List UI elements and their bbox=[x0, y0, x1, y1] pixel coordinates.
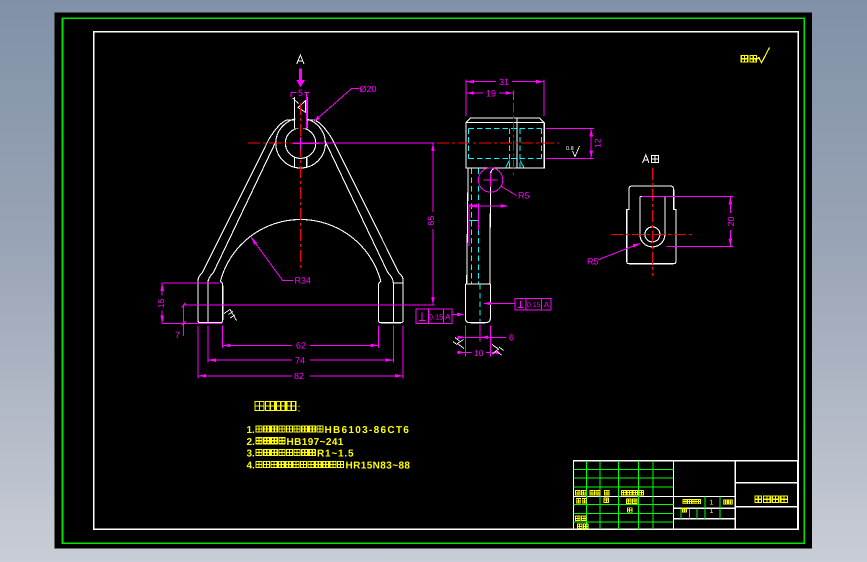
left foot pad bbox=[198, 279, 223, 323]
dimension 5 (slot width) bbox=[291, 92, 297, 97]
A view R5 leader bbox=[598, 244, 639, 260]
dimension 10 bbox=[457, 352, 490, 354]
svg-text:R1~1.5: R1~1.5 bbox=[317, 449, 354, 460]
svg-text:6: 6 bbox=[509, 333, 514, 343]
right foot pad bbox=[379, 279, 404, 323]
foot surface finish mark bbox=[224, 310, 237, 321]
A view outline bbox=[627, 186, 676, 264]
side view leg back edge bbox=[489, 174, 492, 284]
title block stage mark labels bbox=[683, 500, 687, 504]
green outer border frame bbox=[63, 18, 805, 543]
center cross ticks bbox=[293, 137, 319, 151]
white inner border frame bbox=[94, 32, 799, 530]
svg-text:A: A bbox=[544, 300, 549, 309]
A view horizontal centerline bbox=[611, 233, 695, 235]
title block green grid horizontals bbox=[573, 469, 673, 522]
A view label bbox=[643, 155, 649, 163]
slot cutout through boss bbox=[295, 112, 306, 121]
title block main white dividers bbox=[573, 461, 797, 530]
A view slot bbox=[640, 196, 665, 247]
side view boss outline bbox=[466, 118, 544, 168]
title block middle small green cells bbox=[681, 496, 720, 518]
svg-text:0.15: 0.15 bbox=[527, 302, 541, 309]
svg-text:65: 65 bbox=[426, 216, 436, 226]
svg-text:1.: 1. bbox=[247, 425, 256, 436]
side view foot outline bbox=[465, 284, 490, 323]
boss top slot side walls bbox=[295, 97, 307, 168]
roughness 0.8 symbol bbox=[573, 146, 580, 157]
dimension 82 bbox=[198, 326, 403, 379]
dimension 74 bbox=[208, 326, 393, 363]
svg-text:0.8: 0.8 bbox=[566, 146, 574, 152]
svg-text:A: A bbox=[445, 313, 451, 322]
svg-text:HB6103-86CT6: HB6103-86CT6 bbox=[325, 425, 411, 436]
svg-text:0.15: 0.15 bbox=[429, 312, 444, 321]
front view horizontal centerline bbox=[248, 142, 318, 144]
dimension 15 (foot height) bbox=[162, 283, 222, 323]
leader and label diameter 20 bbox=[313, 89, 359, 123]
dimension 62 bbox=[223, 326, 379, 349]
leader and label R34 bbox=[251, 237, 293, 280]
svg-text:15: 15 bbox=[156, 299, 166, 309]
leg hidden hole dashed lines bbox=[471, 169, 478, 284]
foot bottom roughness symbols bbox=[453, 338, 504, 356]
front view boss outer circle bbox=[276, 118, 326, 168]
svg-text:7: 7 bbox=[175, 330, 180, 340]
dimension 6 bbox=[465, 325, 506, 357]
svg-text:R34: R34 bbox=[295, 276, 312, 286]
fillet annotation circle and cross R5 bbox=[478, 168, 516, 196]
view arrow A label bbox=[297, 55, 304, 64]
title block outer box bbox=[573, 461, 797, 530]
right leg inner line bbox=[325, 142, 393, 284]
svg-text:HR15N83~88: HR15N83~88 bbox=[346, 460, 411, 471]
svg-text:5: 5 bbox=[298, 88, 303, 98]
front view vertical centerline bbox=[300, 103, 302, 268]
foot hidden slot line bbox=[479, 284, 481, 322]
svg-text:10: 10 bbox=[474, 348, 484, 358]
A view center hole bbox=[645, 227, 660, 242]
hidden hole step rung bbox=[469, 220, 479, 222]
dimension 12 (bore) bbox=[546, 128, 594, 158]
A view vertical centerline bbox=[651, 168, 653, 276]
dimension 65 vertical bbox=[184, 143, 435, 305]
side view slot bottom edge bbox=[466, 122, 544, 124]
svg-text:82: 82 bbox=[294, 371, 304, 381]
svg-text:R5: R5 bbox=[587, 257, 599, 267]
dimension 19 bbox=[466, 91, 514, 100]
view direction arrow A bbox=[296, 69, 305, 88]
svg-text:Ø20: Ø20 bbox=[360, 84, 377, 94]
svg-text:3.: 3. bbox=[247, 449, 256, 460]
side view hidden bore rectangle bbox=[469, 128, 542, 158]
svg-text:74: 74 bbox=[295, 355, 305, 365]
side view hidden vertical hole in boss bbox=[509, 128, 520, 167]
svg-text:20: 20 bbox=[726, 216, 736, 226]
boss flat top ledge lines bbox=[287, 119, 313, 121]
hidden hole chamfer ticks bbox=[506, 161, 524, 168]
title block designer labels bbox=[576, 499, 580, 503]
dimension 31 bbox=[466, 79, 544, 116]
dimension 5 right extension line bbox=[306, 93, 308, 129]
svg-text:2.: 2. bbox=[247, 437, 256, 448]
svg-text:12: 12 bbox=[593, 138, 603, 148]
part name san cha bo cha bbox=[755, 496, 762, 503]
left leg inner line bbox=[208, 142, 276, 284]
side view leg front edge bbox=[467, 169, 468, 284]
prong arc R34 bbox=[220, 219, 381, 281]
svg-text:4.: 4. bbox=[247, 460, 256, 471]
svg-text:R5: R5 bbox=[518, 191, 530, 201]
svg-text:62: 62 bbox=[296, 341, 306, 351]
dimension 7 (pad step) bbox=[182, 303, 186, 336]
fillet R5 white arc bbox=[491, 168, 497, 174]
general roughness note (qi yu + check) bbox=[741, 56, 748, 63]
svg-text::: : bbox=[298, 403, 301, 415]
dimension 20 bbox=[642, 196, 733, 246]
boss step line bbox=[516, 118, 518, 168]
datum frame perpendicularity 0.15 A right bbox=[487, 299, 551, 311]
datum frame perpendicularity 0.15 A left bbox=[416, 309, 461, 324]
side view vertical centerline of hole bbox=[513, 103, 515, 176]
svg-text:HB197~241: HB197~241 bbox=[287, 437, 344, 448]
title block row labels bbox=[576, 491, 580, 495]
svg-text:1: 1 bbox=[710, 500, 714, 507]
surface finish flag inside slot bbox=[293, 98, 306, 112]
left leg outer line bbox=[198, 120, 287, 280]
title block green grid verticals bbox=[587, 461, 654, 530]
svg-text:19: 19 bbox=[486, 88, 496, 98]
small hole width dimension with leader bbox=[469, 204, 502, 246]
front view bore inner circle bbox=[285, 128, 315, 158]
svg-text:1: 1 bbox=[710, 508, 714, 515]
svg-text:31: 31 bbox=[499, 77, 509, 87]
side view horizontal centerline bbox=[437, 142, 559, 144]
right leg outer line bbox=[314, 120, 403, 280]
tech requirements title bbox=[255, 401, 264, 410]
